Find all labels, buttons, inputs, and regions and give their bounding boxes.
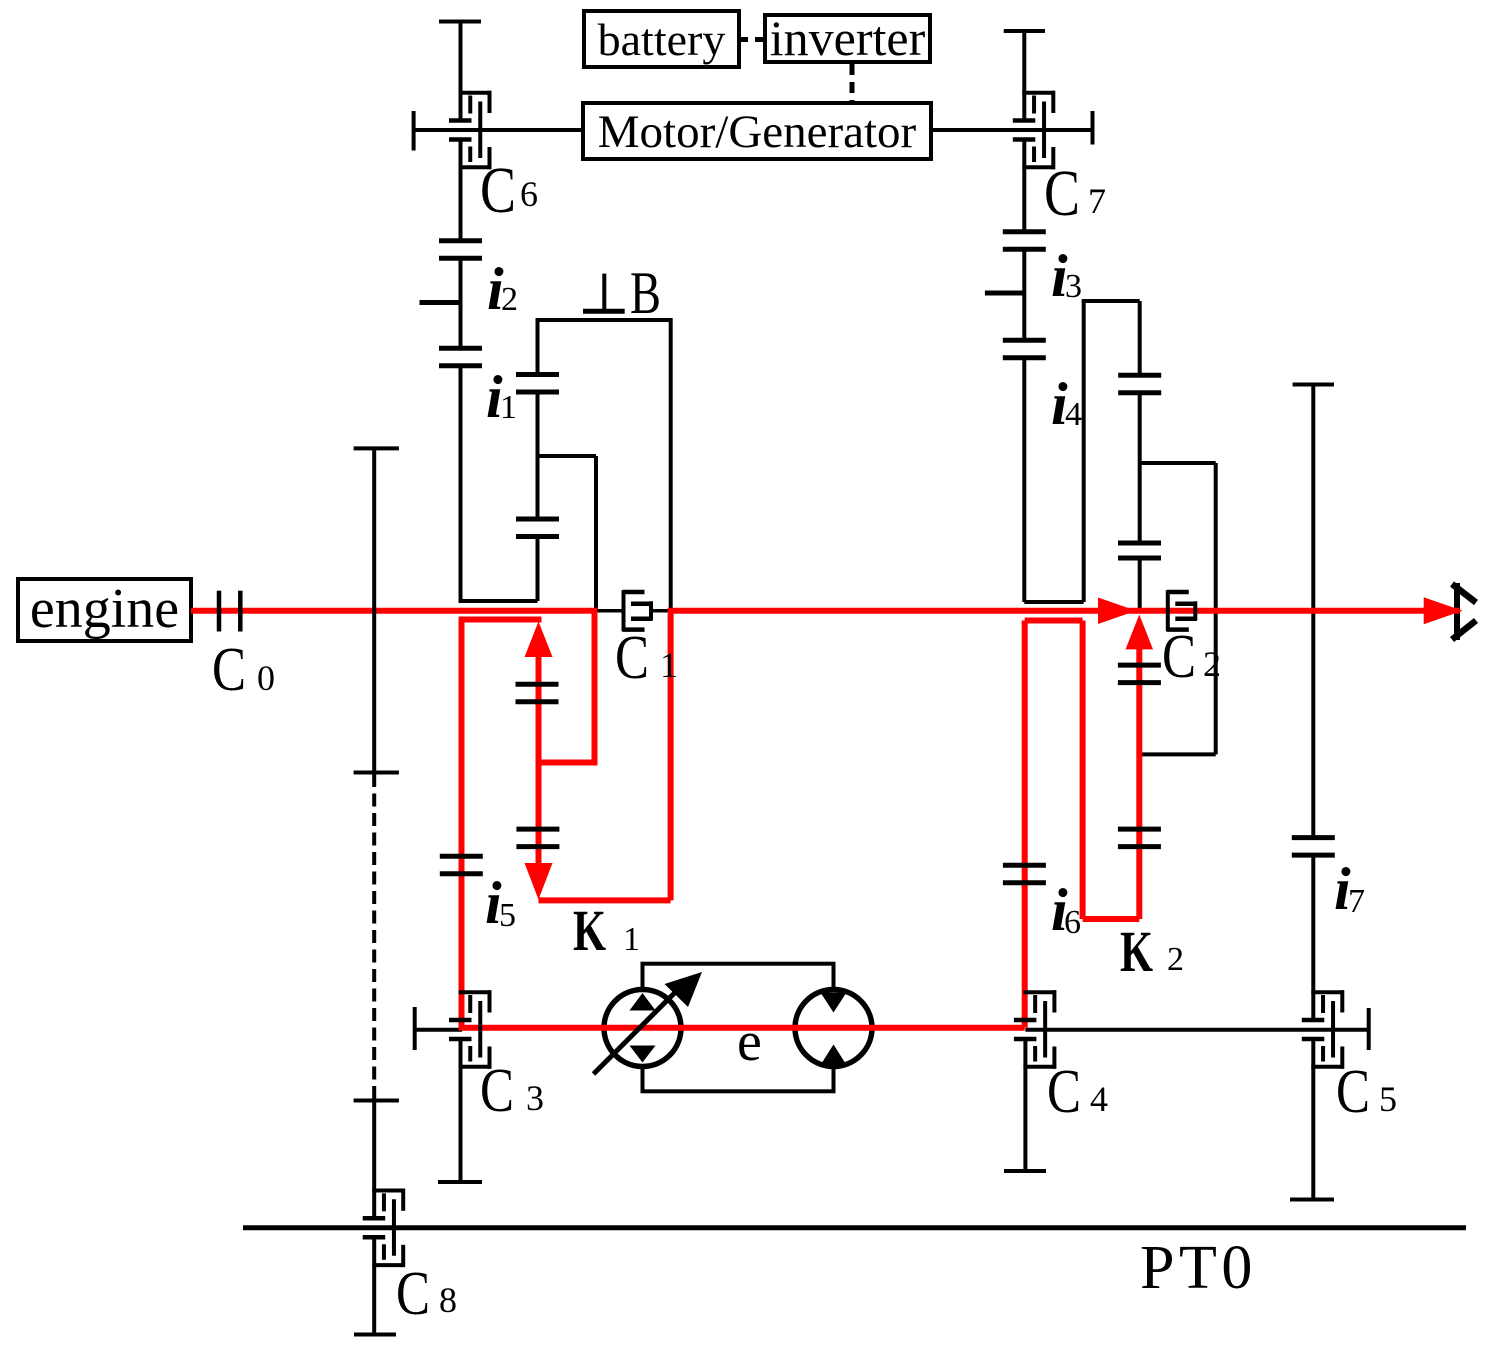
motor shaft left end cap: [412, 111, 416, 151]
motor shaft right end cap: [1091, 111, 1095, 145]
wire C5 branch vertical seg3: [1311, 1039, 1315, 1200]
svg-text:1: 1: [660, 645, 678, 685]
wire C3 shaft horizontal: [415, 1028, 462, 1032]
wire inverter-motor dashed: [850, 64, 855, 103]
svg-text:3: 3: [526, 1078, 544, 1118]
clutch C3: [449, 990, 491, 1069]
svg-text:2: 2: [1167, 941, 1184, 978]
PTO shaft line: [243, 1225, 1466, 1230]
wire step vertical to main shaft: [594, 456, 598, 611]
wire right inner vertical seg1: [1138, 301, 1142, 375]
wire red main shaft from engine: [191, 608, 598, 614]
svg-text:C: C: [480, 154, 516, 227]
pump flow triangle up: [630, 993, 656, 1011]
wire shaft below C4: [1023, 1039, 1027, 1171]
clutch C0 plate 1: [217, 591, 222, 632]
right countershaft top cap: [1004, 29, 1045, 33]
clutch C4: [1014, 990, 1056, 1069]
gear mesh K1 upper: [516, 684, 559, 702]
motor flow triangle bottom: [821, 1045, 847, 1066]
engine box: [18, 579, 191, 641]
wire red K1 return vertical: [668, 608, 674, 900]
wire right bottom bar: [1024, 600, 1083, 604]
wire red K2 right leg: [1080, 621, 1086, 920]
wire shaft below C3: [459, 1039, 463, 1182]
svg-text:2: 2: [501, 281, 518, 318]
svg-text:0: 0: [257, 658, 275, 698]
svg-text:inverter: inverter: [770, 10, 926, 66]
wire right inner vertical seg2: [1138, 393, 1142, 543]
wire left countershaft upper: [459, 22, 463, 122]
left stub wire at i2 shaft: [420, 300, 461, 305]
gear mesh K2 lower: [1118, 829, 1161, 847]
wire step right lower: [1140, 752, 1216, 756]
svg-text:C: C: [1162, 623, 1196, 691]
svg-text:PT0: PT0: [1140, 1234, 1257, 1302]
wire C5 branch vertical seg2: [1311, 856, 1315, 1020]
gear mesh on B branch lower: [516, 519, 559, 537]
wire red left pi horizontal: [459, 617, 542, 623]
wire motor shaft right: [931, 128, 1093, 132]
wire red K2 bottom: [1083, 916, 1140, 922]
clutch C5: [1302, 990, 1344, 1069]
wire left bottom bar: [459, 599, 538, 603]
gear mesh i2: [439, 241, 482, 259]
gear mesh above C2: [1118, 543, 1161, 558]
gear mesh i3: [1003, 232, 1046, 250]
svg-text:K: K: [573, 898, 606, 963]
svg-text:3: 3: [1065, 268, 1082, 305]
svg-text:battery: battery: [598, 14, 726, 65]
gear mesh K2 upper: [1118, 665, 1161, 683]
svg-text:e: e: [737, 1011, 762, 1073]
C5 branch bottom cap: [1290, 1198, 1334, 1202]
clutch C8: [363, 1189, 405, 1268]
svg-text:1: 1: [500, 389, 517, 426]
wire right inner vertical seg3: [1138, 558, 1142, 611]
wire left countershaft mid: [459, 258, 463, 348]
output end symbol lower diagonal: [1452, 621, 1476, 640]
gear mesh i5: [440, 856, 483, 874]
C4-C5 shaft right end cap: [1367, 1008, 1371, 1050]
long left shaft tick lower: [354, 1099, 399, 1103]
svg-text:8: 8: [439, 1280, 457, 1320]
variable displacement diagonal arrow: [594, 989, 680, 1075]
wire battery-inverter dashed: [739, 37, 765, 42]
motor flow triangle top: [821, 993, 847, 1013]
battery box: [584, 11, 739, 67]
svg-text:engine: engine: [30, 578, 179, 640]
svg-text:C: C: [396, 1260, 430, 1328]
variable displacement arrowhead: [665, 972, 703, 1007]
svg-text:5: 5: [499, 897, 516, 934]
left stub wire at i3 shaft: [985, 291, 1024, 296]
svg-text:Motor/Generator: Motor/Generator: [598, 106, 917, 158]
svg-text:C: C: [1047, 1058, 1081, 1126]
gear mesh i6: [1003, 865, 1046, 883]
left countershaft top cap: [439, 20, 481, 24]
wire motor shaft left: [414, 128, 583, 132]
long left shaft tick upper: [354, 771, 399, 775]
brake symbol stem: [602, 274, 606, 311]
wire red hydrostatic line: [462, 1025, 1025, 1031]
inverter box: [765, 15, 930, 62]
svg-text:C: C: [1044, 157, 1080, 230]
brake symbol bar: [583, 309, 625, 314]
gear mesh i1: [516, 374, 559, 392]
svg-text:C: C: [480, 1057, 514, 1125]
clutch C6: [449, 91, 491, 170]
wire left countershaft below C6: [459, 139, 463, 241]
pump flow triangle down: [630, 1046, 656, 1063]
wire right countershaft upper: [1022, 31, 1026, 121]
gear mesh i5 on arrow: [516, 829, 559, 847]
svg-text:5: 5: [1379, 1079, 1397, 1119]
gear mesh i4-lower: [1003, 340, 1046, 358]
wire red K1 arrow shaft: [536, 650, 542, 866]
C8 bottom cap: [354, 1333, 396, 1337]
svg-text:6: 6: [1064, 904, 1081, 941]
wire long left shaft upper solid: [372, 448, 376, 774]
svg-text:2: 2: [1203, 644, 1221, 684]
wire red K2 arrow shaft: [1136, 648, 1142, 919]
dog clutch C2: [1167, 590, 1197, 631]
svg-text:C: C: [1336, 1058, 1370, 1126]
wire red right vertical from C4: [1022, 621, 1028, 1028]
red arrowhead main shaft end: [1424, 597, 1463, 624]
long left shaft top cap: [354, 446, 399, 450]
wire right branch left vertical: [1082, 301, 1086, 602]
wire long left shaft dashed: [372, 774, 376, 1100]
wire right countershaft below C7: [1022, 139, 1026, 232]
red arrowhead K2 up: [1126, 615, 1154, 650]
wire red left vertical to C3: [459, 620, 465, 1031]
svg-text:1: 1: [623, 921, 640, 958]
red arrowhead mid main shaft: [1098, 598, 1136, 625]
wire red K1 feed step: [536, 760, 598, 766]
C4 lower cap: [1004, 1169, 1046, 1173]
output end symbol vertical: [1454, 583, 1460, 640]
wire B branch left vertical seg1: [536, 318, 540, 374]
svg-text:7: 7: [1088, 181, 1106, 221]
C5 branch top cap: [1293, 383, 1334, 387]
output end symbol upper diagonal: [1452, 584, 1476, 603]
wire step to C1: [538, 454, 597, 458]
wire left countershaft lower: [459, 366, 463, 601]
svg-text:7: 7: [1348, 883, 1365, 920]
Motor/Generator box: [583, 103, 931, 159]
wire red main shaft right of C1: [668, 608, 1460, 614]
hydrostatic unit housing: [643, 964, 834, 1092]
wire B branch right vertical: [669, 318, 673, 611]
hydrostatic motor circle: [795, 990, 872, 1067]
C3 lower cap: [438, 1180, 482, 1184]
svg-text:C: C: [615, 624, 649, 692]
clutch C7: [1013, 91, 1055, 170]
svg-text:4: 4: [1065, 396, 1082, 433]
wire B branch left vertical seg3: [536, 537, 540, 602]
node right branch top: [1082, 299, 1140, 303]
red arrowhead K1 down: [525, 863, 553, 900]
wire main shaft black at C1 right: [652, 609, 671, 613]
wire red right pi horizontal: [1025, 618, 1083, 624]
svg-text:K: K: [1120, 919, 1153, 984]
gear mesh i4: [1118, 375, 1161, 393]
wire right countershaft mid: [1022, 250, 1026, 341]
wire right countershaft lower: [1022, 358, 1026, 602]
wire long left shaft lower solid: [372, 1101, 376, 1220]
svg-text:4: 4: [1090, 1079, 1108, 1119]
dog clutch C1: [623, 590, 653, 631]
red arrowhead K1 up: [525, 622, 553, 658]
svg-text:6: 6: [520, 174, 538, 214]
wire B branch left vertical seg2: [536, 392, 540, 519]
wire below C8: [372, 1237, 376, 1335]
wire red K1 bottom: [539, 897, 671, 903]
C3 shaft left end cap: [413, 1007, 417, 1050]
wire step right upper: [1140, 461, 1216, 465]
wire main shaft black at C1 left: [596, 609, 622, 613]
gear mesh i7: [1292, 838, 1335, 856]
svg-text:C: C: [212, 636, 246, 704]
node B branch top: [538, 318, 671, 322]
wire outer right vertical: [1214, 463, 1218, 754]
wire red K1 feed vertical: [592, 608, 598, 763]
wire C4-C5 shaft horizontal: [1025, 1028, 1368, 1032]
wire C5 branch vertical seg1: [1311, 385, 1315, 837]
svg-text:B: B: [630, 260, 661, 326]
hydrostatic pump circle: [604, 990, 681, 1067]
clutch C0 plate 2: [238, 591, 243, 632]
gear mesh i1-lower: [439, 348, 482, 366]
